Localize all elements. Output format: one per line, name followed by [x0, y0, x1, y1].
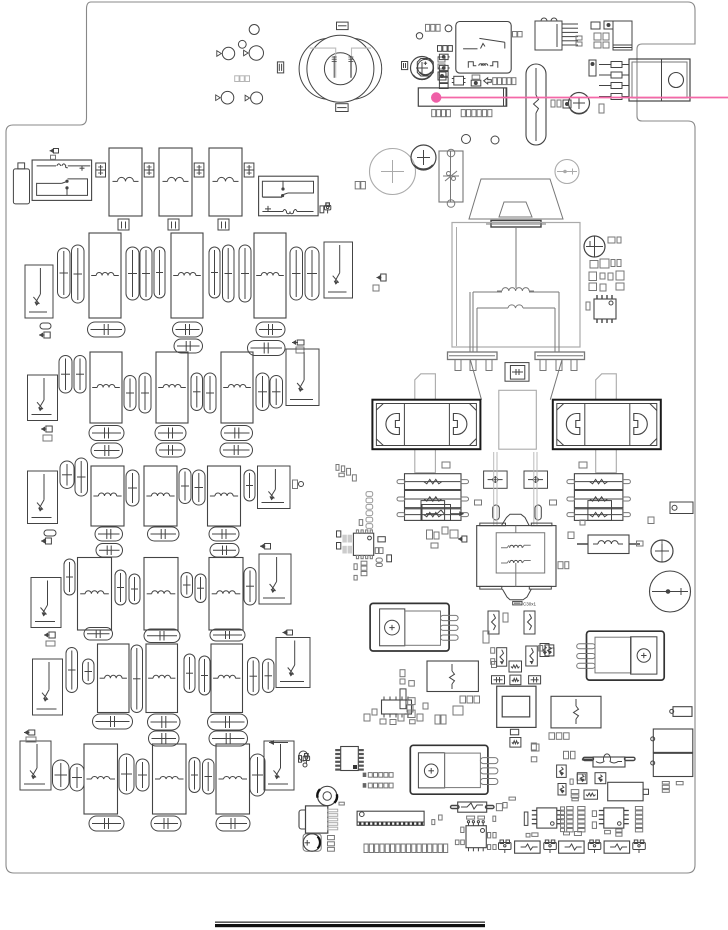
svg-text:C30x1: C30x1 [523, 602, 537, 607]
